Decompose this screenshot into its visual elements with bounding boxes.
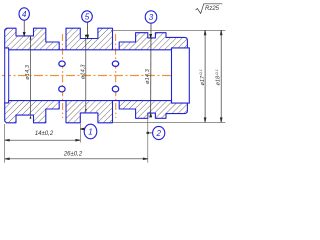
svg-text:14±0,2: 14±0,2 [35, 131, 54, 137]
svg-text:3: 3 [149, 13, 154, 22]
svg-text:1: 1 [88, 127, 92, 136]
svg-text:ø14,3: ø14,3 [81, 64, 87, 80]
svg-text:Rz25: Rz25 [205, 6, 220, 12]
svg-text:ø14,3: ø14,3 [25, 64, 31, 80]
svg-text:4: 4 [22, 10, 27, 19]
svg-text:ø14,3: ø14,3 [145, 68, 151, 84]
svg-text:2: 2 [155, 129, 161, 138]
svg-text:26±0,2: 26±0,2 [63, 151, 83, 157]
svg-text:5: 5 [85, 12, 90, 21]
